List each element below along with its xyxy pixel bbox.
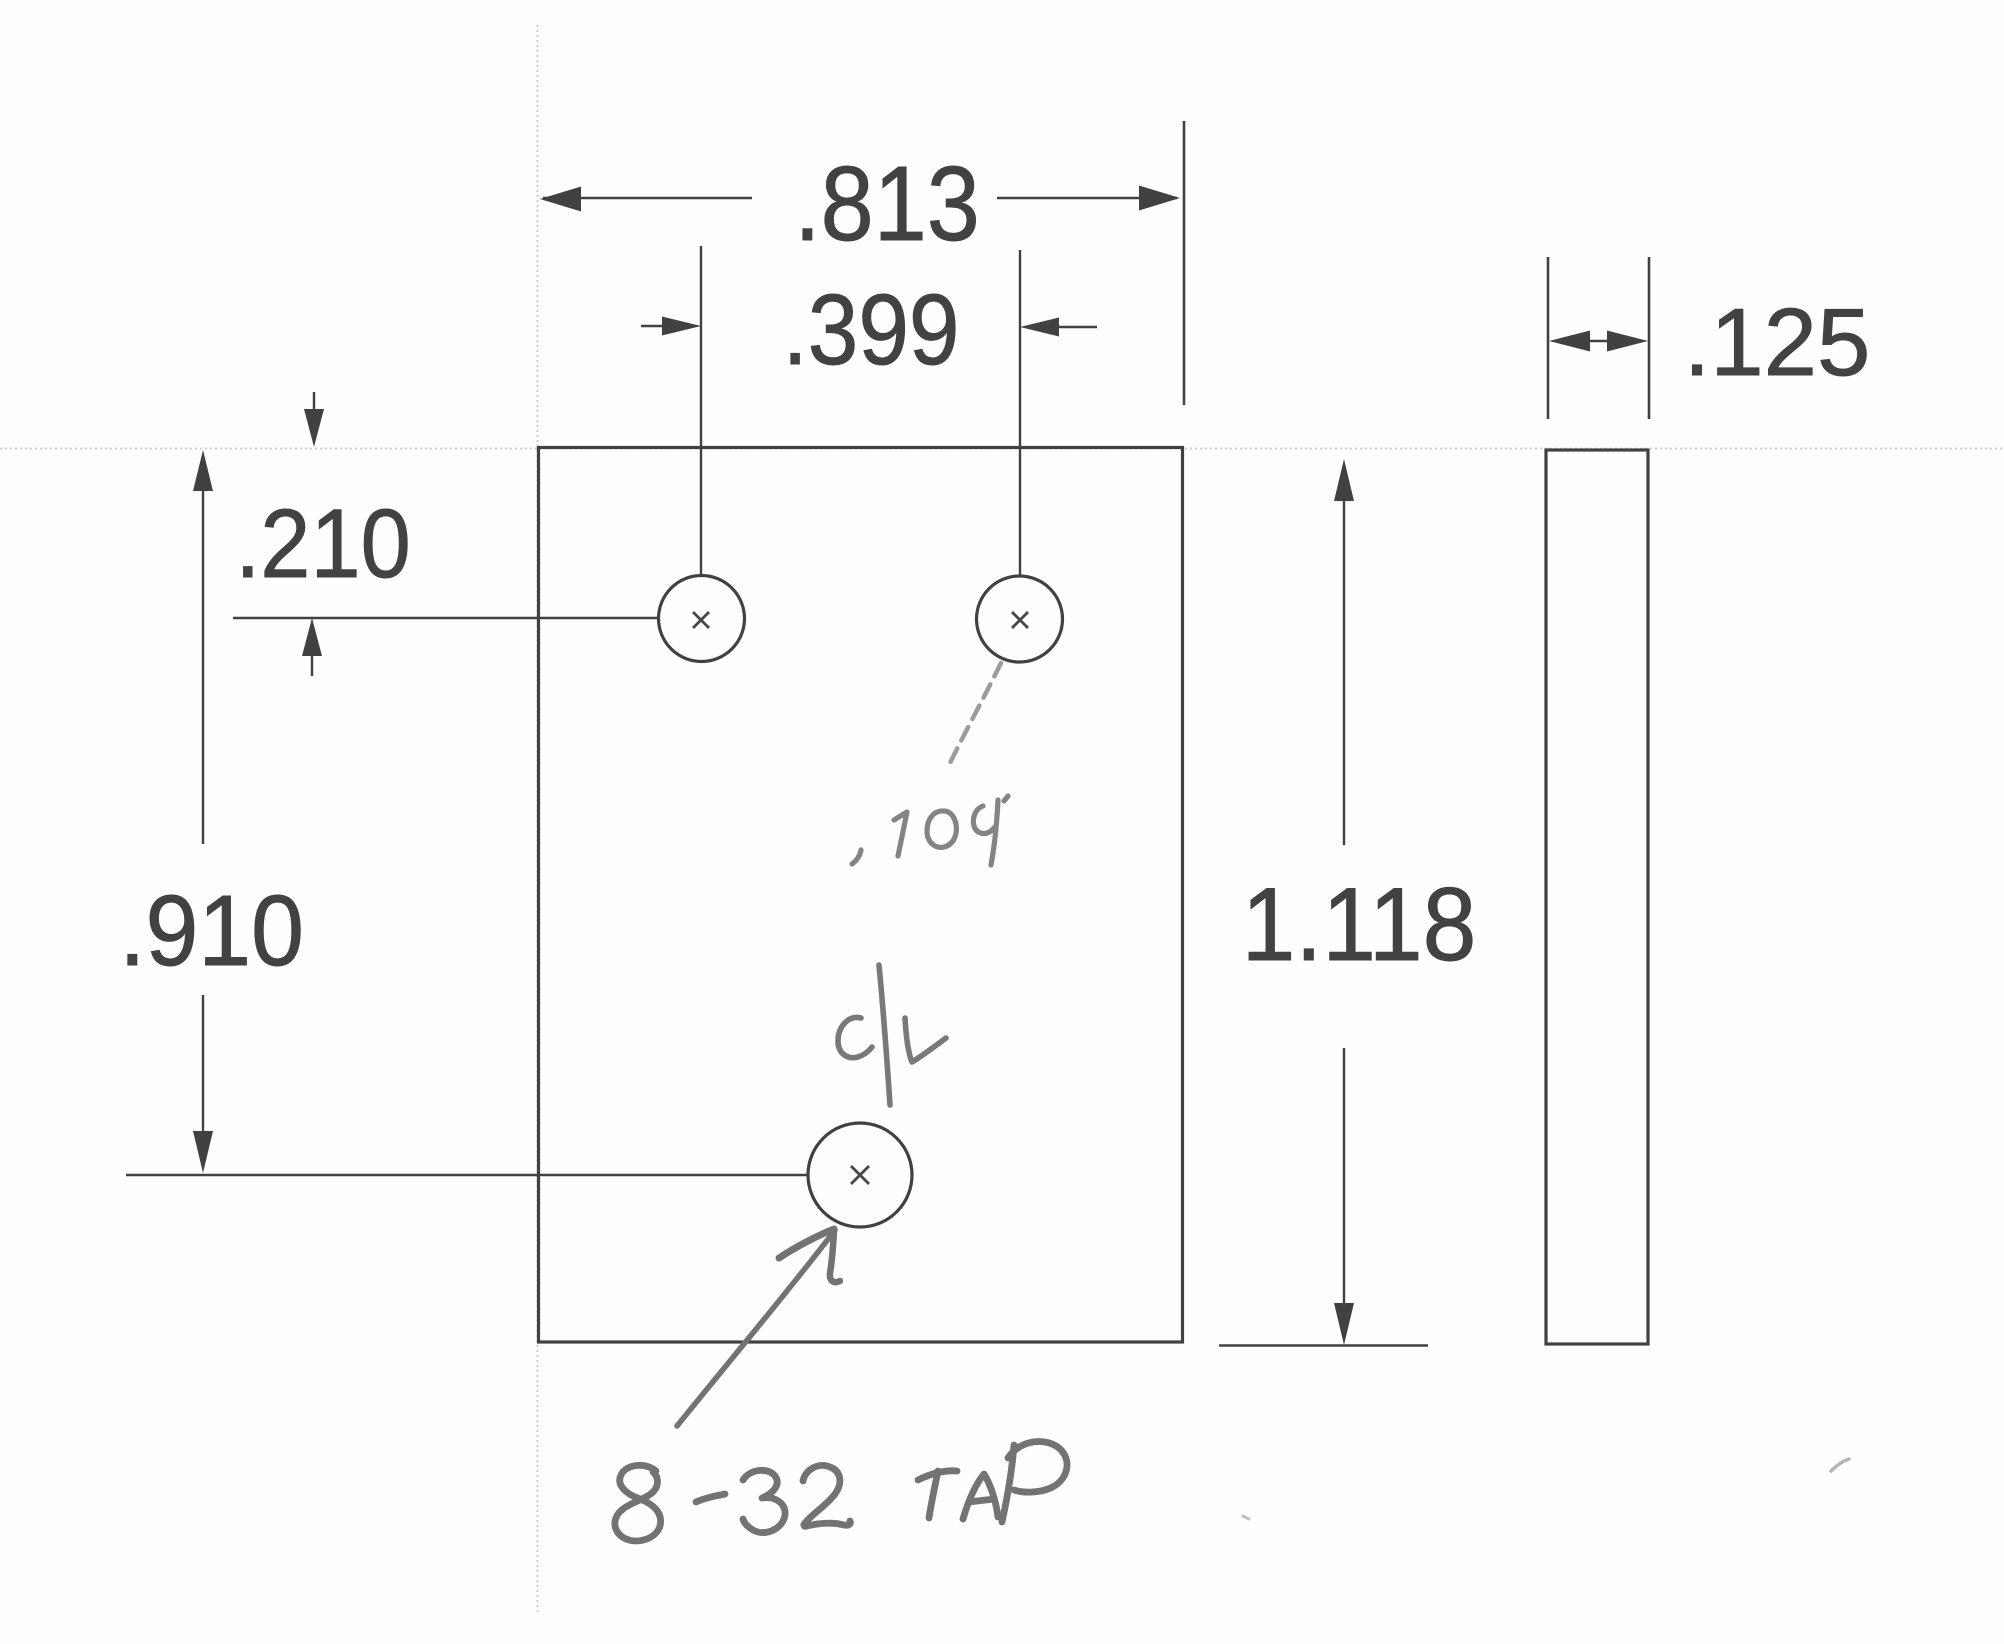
dimension .210 xyxy=(235,392,411,676)
hole H2 centerline xyxy=(1019,250,1021,575)
svg-text:.399: .399 xyxy=(782,274,959,386)
dimension .813 xyxy=(540,121,1184,405)
svg-text:1.118: 1.118 xyxy=(1242,867,1477,983)
hole H2 center mark xyxy=(1012,612,1028,628)
pencil leader from hole H2 xyxy=(948,663,1001,767)
dimension 1.118 xyxy=(1219,459,1476,1346)
handwritten note 8-32 TAP xyxy=(615,1441,1067,1540)
svg-text:.813: .813 xyxy=(794,145,980,263)
hole H3 xyxy=(808,1123,912,1227)
hole H3 leader line xyxy=(126,1174,808,1176)
hole H1 leader line xyxy=(233,617,658,619)
horizontal construction line xyxy=(0,448,2004,450)
svg-text:.910: .910 xyxy=(119,875,304,987)
faint pencil stray mark right xyxy=(1831,1459,1849,1471)
side view outline xyxy=(1546,450,1648,1344)
dimension .910 xyxy=(119,450,304,1173)
svg-text:.210: .210 xyxy=(235,489,411,598)
faint pencil stray dot xyxy=(1243,1516,1249,1519)
svg-text:.125: .125 xyxy=(1684,289,1871,396)
hole H1 center mark xyxy=(693,612,709,628)
hole H1 xyxy=(659,576,745,662)
pencil arrow to hole H3 xyxy=(677,1229,840,1426)
hole H2 xyxy=(977,576,1063,662)
hole H3 center mark xyxy=(851,1166,869,1184)
hole H1 centerline xyxy=(700,246,702,574)
handwritten note .104 xyxy=(852,796,1008,865)
handwritten note c/L xyxy=(838,965,946,1105)
dimension .125 xyxy=(1548,257,1870,419)
vertical construction line xyxy=(537,25,539,1612)
dimension .399 xyxy=(641,274,1097,386)
plate front view outline xyxy=(539,448,1183,1343)
